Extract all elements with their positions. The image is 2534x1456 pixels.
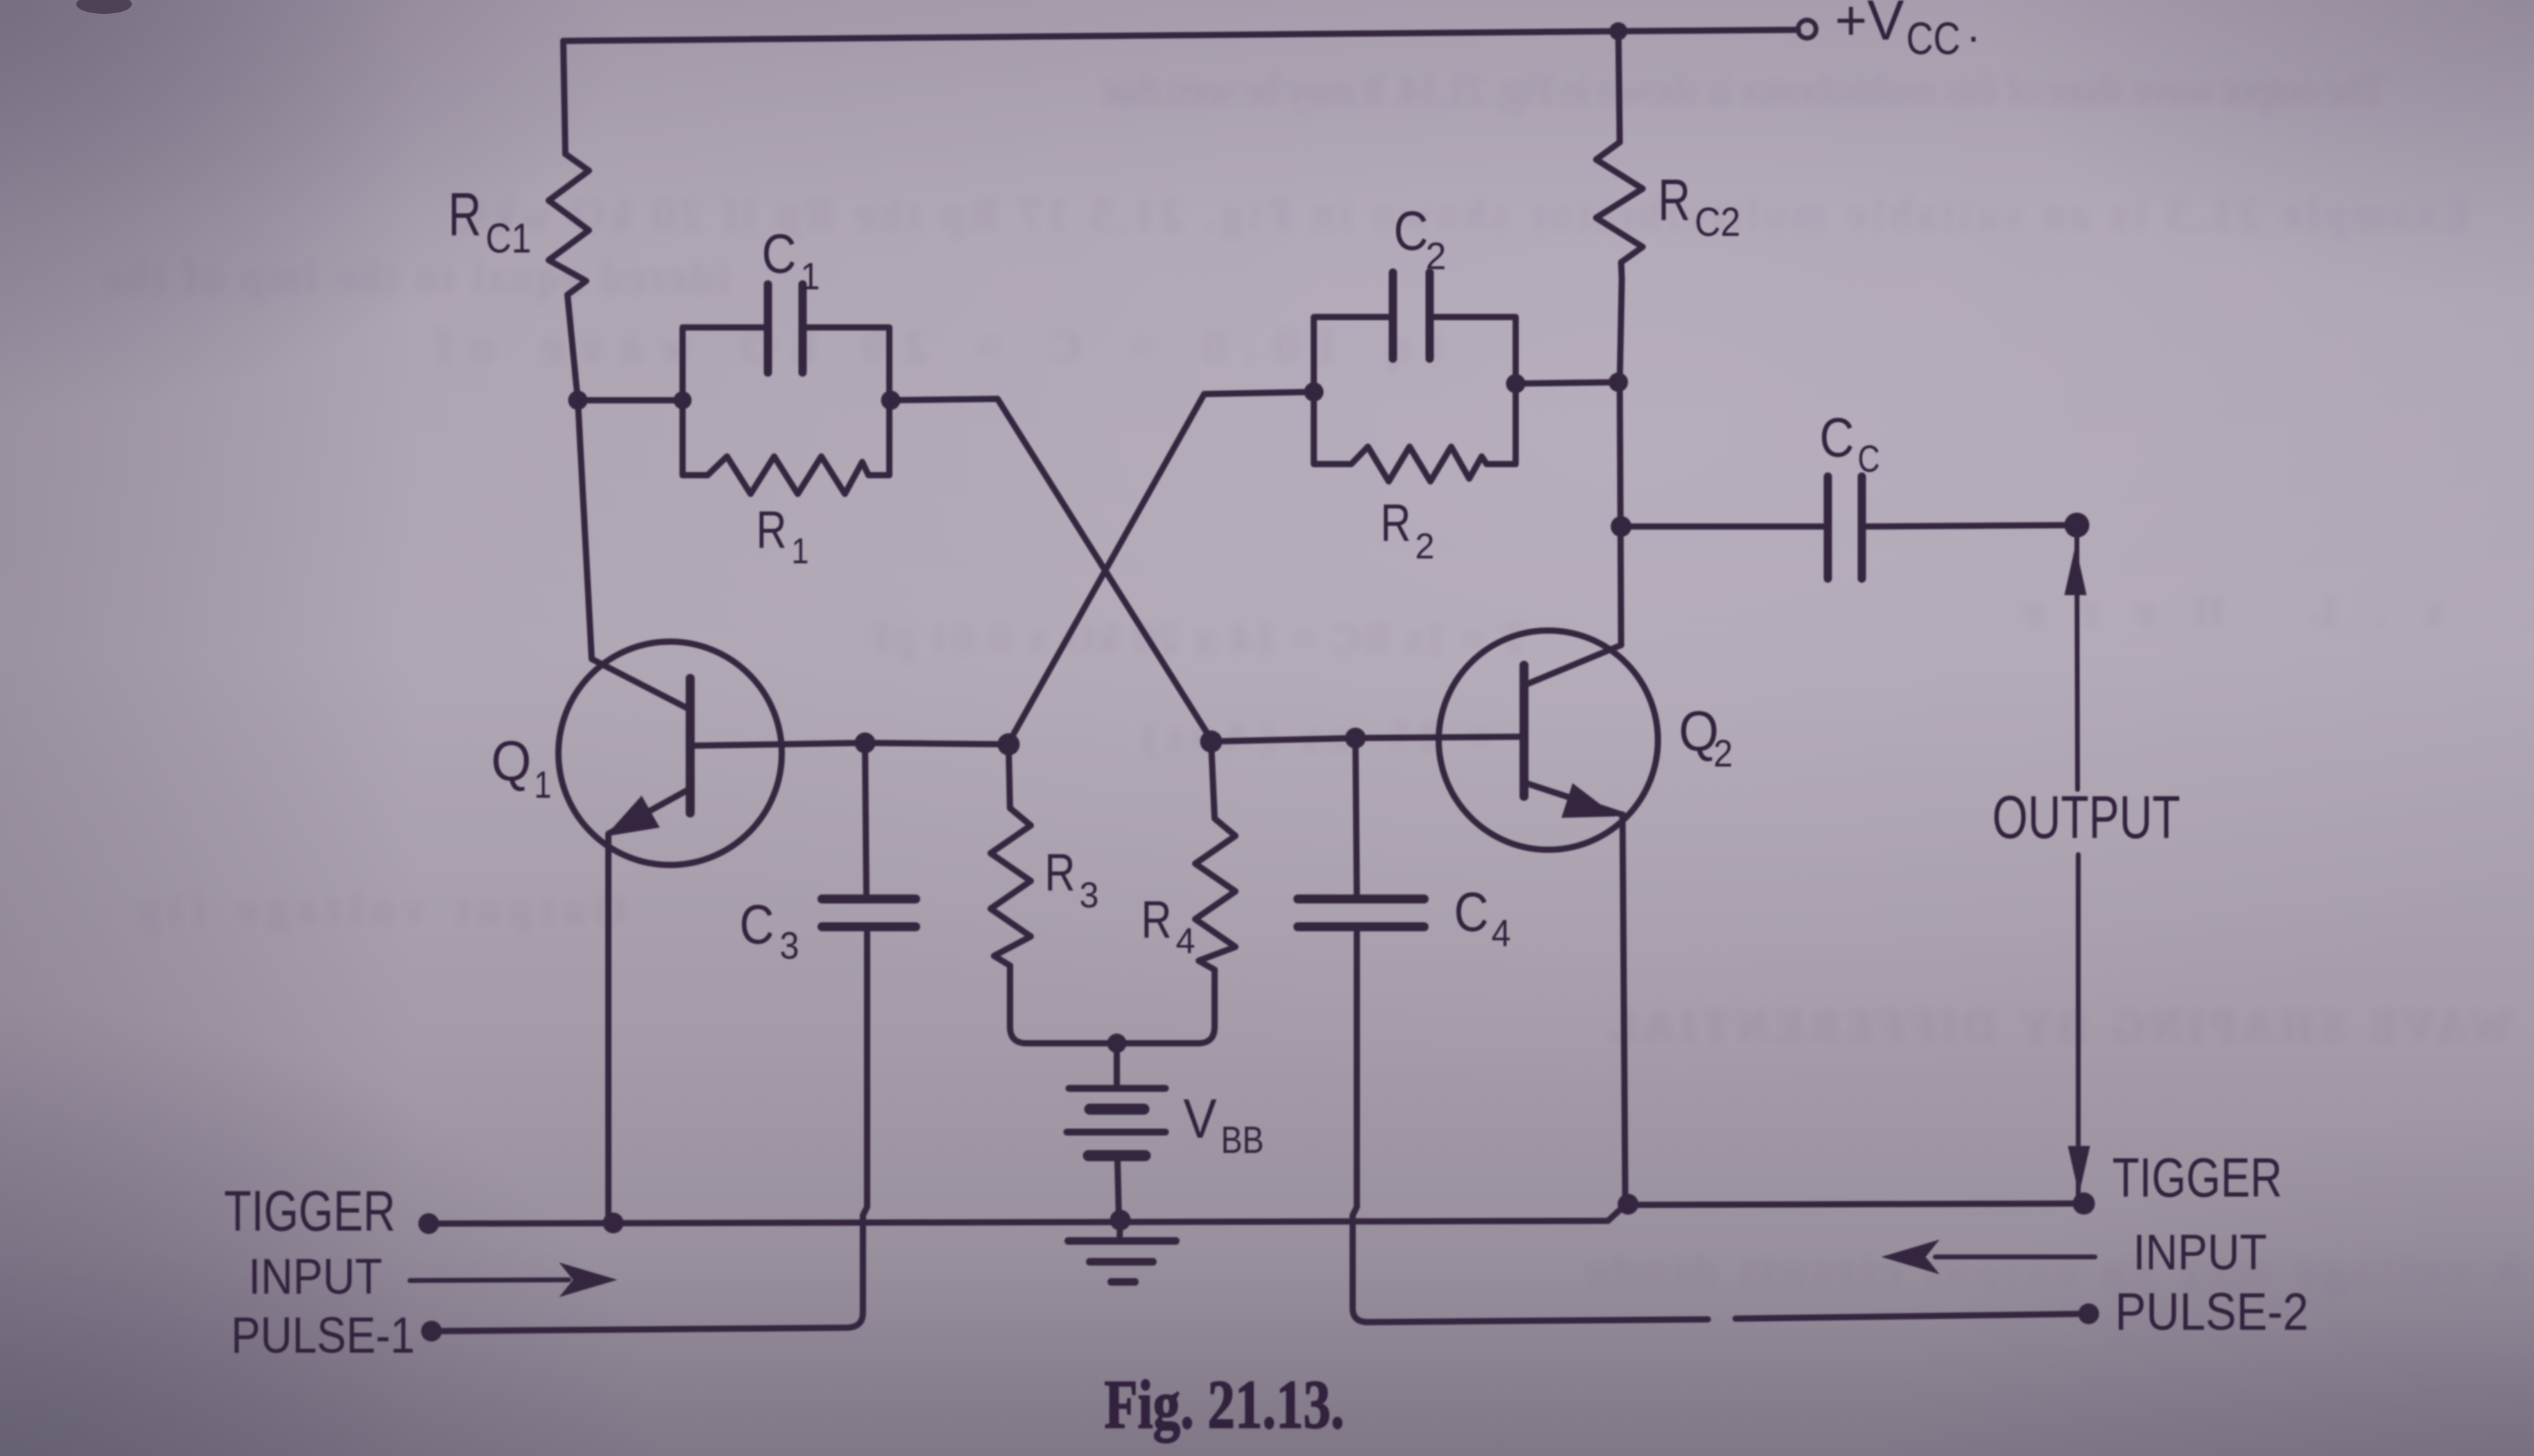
svg-text:C: C bbox=[1394, 200, 1428, 262]
wire RC2 top lead bbox=[1618, 31, 1620, 142]
wire RC1 top lead bbox=[563, 41, 565, 154]
wire emitter Q2 down bbox=[1623, 814, 1625, 1204]
wire C2 left to box left vertical bbox=[1314, 317, 1389, 464]
svg-text:C: C bbox=[1820, 406, 1854, 468]
resistor RC1 bbox=[549, 154, 589, 295]
terminal dot PULSE-2 bbox=[2078, 1303, 2099, 1324]
wire top rail from RC1 top to +Vcc bbox=[563, 30, 1798, 41]
transistor Q2 bbox=[1439, 631, 1658, 850]
node top rail at RC2 bbox=[1609, 22, 1627, 40]
svg-text:2: 2 bbox=[1426, 234, 1446, 277]
node R4 top bbox=[1200, 730, 1222, 753]
svg-text:3: 3 bbox=[1079, 875, 1099, 916]
wire C1 right to box right vertical bbox=[807, 327, 889, 475]
svg-text:WAVE SHAPING BY DIFFERENTIAL: WAVE SHAPING BY DIFFERENTIAL bbox=[1609, 1003, 2511, 1050]
node A collector Q1 bbox=[568, 391, 588, 410]
svg-text:A voltage may on output circui: A voltage may on output circuit diode bbox=[1589, 1247, 2525, 1292]
capacitor CC bbox=[1824, 477, 1832, 579]
node R3 top bbox=[998, 733, 1020, 755]
terminal dot TIGGER left bbox=[418, 1213, 439, 1234]
wire C4 bottom to pulse-2 line bbox=[1353, 931, 1708, 1322]
svg-text:3: 3 bbox=[780, 924, 799, 967]
wire CC right lead to output node bbox=[1866, 525, 2077, 526]
svg-text:C2: C2 bbox=[1695, 200, 1740, 245]
arrow trigger input 2 bbox=[1935, 1255, 2095, 1260]
svg-text:1: 1 bbox=[791, 531, 809, 572]
node B C1 box right bbox=[881, 391, 900, 410]
svg-text:Q: Q bbox=[491, 730, 531, 793]
svg-text:OUTPUT: OUTPUT bbox=[1992, 784, 2180, 851]
wire base Q2 line from R4 node bbox=[1211, 737, 1524, 742]
capacitor C2 bbox=[1389, 273, 1397, 359]
wire emitter Q1 down bbox=[606, 835, 612, 1223]
svg-text:.: . bbox=[1967, 1, 1980, 51]
ground bbox=[1120, 1220, 1120, 1239]
arrow trigger input 1 bbox=[410, 1280, 569, 1281]
node emitter Q1 trigger bbox=[603, 1213, 624, 1233]
svg-text:C1: C1 bbox=[486, 215, 531, 262]
wire RC2 bottom to collector Q2 bbox=[1620, 279, 1622, 645]
svg-text:1: 1 bbox=[801, 255, 820, 298]
resistor R3 bbox=[991, 746, 1031, 966]
svg-text:V: V bbox=[1183, 1088, 1217, 1149]
svg-text:The output wave share of this: The output wave share of this multivibra… bbox=[1103, 67, 2386, 113]
collector Q2 bbox=[1524, 645, 1621, 685]
svg-text:C: C bbox=[739, 893, 774, 955]
wire node A to C1 box bbox=[578, 397, 683, 404]
wire CC left lead bbox=[1621, 524, 1824, 530]
wire base Q1 line to R3 node bbox=[865, 743, 1009, 744]
node output top bbox=[2064, 513, 2089, 538]
wire OUTPUT vertical bbox=[2077, 538, 2078, 789]
wire trigger line bottom bbox=[429, 1204, 2084, 1224]
svg-text:R: R bbox=[756, 501, 787, 560]
node C2 box left bbox=[1304, 382, 1324, 402]
resistor R2 bbox=[1314, 447, 1516, 481]
capacitor C1 bbox=[764, 284, 772, 372]
+Vcc terminal circle bbox=[1798, 20, 1816, 38]
svg-text:INPUT: INPUT bbox=[248, 1249, 382, 1305]
svg-text:R: R bbox=[1045, 843, 1075, 902]
svg-text:BB: BB bbox=[1221, 1118, 1264, 1161]
svg-text:1: 1 bbox=[534, 763, 551, 806]
node C4 top bbox=[1345, 728, 1366, 748]
wire cross-coupling from C2 box left node to R3 node bbox=[1009, 392, 1314, 743]
node CC junction bbox=[1611, 516, 1632, 537]
arrow output up bbox=[2064, 545, 2087, 595]
svg-text:4: 4 bbox=[1176, 921, 1195, 961]
capacitor C4 bbox=[1355, 738, 1357, 895]
svg-text:C: C bbox=[1454, 881, 1489, 943]
terminal dot PULSE-1 bbox=[421, 1321, 442, 1342]
svg-text:4: 4 bbox=[1491, 911, 1511, 954]
transistor Q1 bbox=[558, 642, 782, 865]
wire R4 bottom to battery bbox=[1117, 970, 1215, 1043]
wire R3 bottom to battery bbox=[1010, 966, 1117, 1043]
wire pulse-2 line right segment bbox=[1736, 1314, 2087, 1319]
photo corner mark top-left bbox=[76, 0, 132, 14]
svg-text:TIGGER: TIGGER bbox=[2112, 1147, 2282, 1208]
svg-text:INPUT: INPUT bbox=[2133, 1225, 2267, 1281]
svg-text:TIGGER: TIGGER bbox=[224, 1179, 395, 1243]
node RC2 C2 junction bbox=[1609, 372, 1628, 392]
svg-text:C: C bbox=[1858, 437, 1880, 480]
wire collector Q1 bbox=[578, 400, 689, 709]
svg-text:+V: +V bbox=[1835, 0, 1904, 52]
wire C1 box left vertical bbox=[683, 327, 764, 475]
emitter Q1 bbox=[608, 789, 689, 834]
wire base Q1 bbox=[690, 743, 865, 746]
node battery ground trigger bbox=[1110, 1210, 1131, 1231]
circuit ink bbox=[410, 20, 2099, 1342]
terminal dot TIGGER right bbox=[2073, 1192, 2095, 1215]
wire RC1 bottom lead to node A bbox=[567, 295, 578, 400]
svg-text:R: R bbox=[1658, 167, 1690, 232]
wire C2 box right vertical bbox=[1434, 317, 1516, 464]
node C2 box right bbox=[1506, 374, 1525, 393]
resistor R1 bbox=[683, 456, 889, 494]
svg-text:R: R bbox=[448, 180, 481, 248]
resistor RC2 bbox=[1596, 142, 1643, 279]
emitter Q2 bbox=[1524, 782, 1621, 814]
svg-text:T = 1s RC = 14 x 20 kO x 0.01: T = 1s RC = 14 x 20 kO x 0.01 pF bbox=[867, 616, 1526, 661]
wire C2 box right to RC2 bbox=[1516, 382, 1618, 384]
svg-text:R: R bbox=[1380, 494, 1411, 553]
svg-text:Fig. 21.13.: Fig. 21.13. bbox=[1104, 1366, 1344, 1443]
svg-text:PULSE-1: PULSE-1 bbox=[231, 1308, 415, 1364]
svg-text:C: C bbox=[762, 223, 796, 284]
capacitor C3 bbox=[865, 743, 866, 895]
svg-text:R: R bbox=[1141, 891, 1172, 950]
node C3 top bbox=[855, 733, 875, 753]
wire cross-coupling from node B to R4 node bbox=[891, 399, 1211, 739]
node battery top bbox=[1107, 1034, 1127, 1053]
svg-text:2: 2 bbox=[1415, 526, 1435, 567]
node C1 box left bbox=[674, 391, 692, 409]
resistor R4 bbox=[1195, 743, 1235, 970]
arrow output down bbox=[2068, 1146, 2090, 1194]
battery VBB bbox=[1114, 1043, 1120, 1086]
wire C3 bottom to pulse-1 line bbox=[431, 931, 867, 1331]
svg-text:2: 2 bbox=[1713, 732, 1733, 775]
svg-text:CC: CC bbox=[1906, 12, 1960, 64]
svg-text:PULSE-2: PULSE-2 bbox=[2115, 1283, 2309, 1342]
node emitter Q2 trigger bbox=[1618, 1194, 1638, 1215]
